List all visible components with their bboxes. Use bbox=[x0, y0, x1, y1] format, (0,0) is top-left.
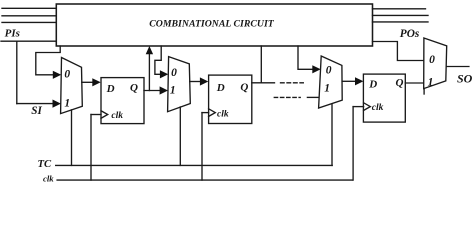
wire SI horizontal into mux M1 input 1 bbox=[17, 103, 55, 105]
svg-text:1: 1 bbox=[64, 98, 70, 110]
svg-text:clk: clk bbox=[111, 111, 123, 121]
mux M2 bbox=[168, 57, 191, 112]
svg-text:COMBINATIONAL CIRCUIT: COMBINATIONAL CIRCUIT bbox=[149, 19, 275, 30]
svg-text:1: 1 bbox=[428, 76, 434, 88]
svg-text:0: 0 bbox=[64, 68, 70, 80]
TC rail wire bbox=[56, 164, 333, 166]
dashed wire lower scan path continuation bbox=[274, 96, 300, 98]
arrowhead into mux M1 input 1 bbox=[53, 100, 61, 108]
mux M4 select stub wire bbox=[423, 89, 425, 95]
arrowhead into FF1 D bbox=[92, 78, 100, 86]
arrowhead into FF2 D bbox=[200, 77, 208, 85]
arrowhead into mux M2 input 0 bbox=[160, 70, 168, 78]
mux M1 bbox=[61, 58, 83, 114]
PO bus wire 1 bbox=[373, 8, 426, 10]
wire comb-out to mux M1 input 0 (zigzag) bbox=[36, 46, 60, 75]
mux M2 select wire to TC bbox=[179, 107, 181, 165]
svg-text:D: D bbox=[106, 83, 115, 95]
PI bus wire 2 bbox=[2, 15, 56, 17]
arrowhead up into comb circuit bbox=[146, 46, 153, 54]
svg-text:PIs: PIs bbox=[5, 28, 20, 40]
mux M3 output wire bbox=[342, 80, 356, 82]
svg-text:D: D bbox=[368, 79, 377, 91]
FF2 clock wedge bbox=[209, 109, 216, 117]
wire comb PO to mux M4 input 0 (POs line) bbox=[373, 42, 424, 61]
PI bus wire 3 bbox=[2, 21, 56, 23]
svg-text:clk: clk bbox=[372, 103, 384, 113]
PO bus wire 2 bbox=[373, 14, 429, 16]
FF3 clock wedge bbox=[364, 103, 371, 111]
wire comb-out to mux M3 input 0 bbox=[298, 46, 314, 69]
svg-text:POs: POs bbox=[400, 28, 420, 40]
FF1 clock wedge bbox=[101, 111, 108, 119]
svg-text:D: D bbox=[216, 82, 225, 94]
svg-text:SI: SI bbox=[31, 105, 42, 117]
wire Q1 feedback vertical to comb circuit bbox=[148, 53, 150, 91]
wire SI vertical drop from PIs line bbox=[16, 41, 18, 103]
mux M1 select wire to TC bbox=[71, 110, 73, 165]
arrowhead into mux M3 input 0 bbox=[312, 65, 320, 73]
svg-text:clk: clk bbox=[43, 174, 54, 184]
wire comb-out to mux M2 input 0 (zigzag) bbox=[155, 46, 161, 74]
mux M4 bbox=[424, 38, 447, 89]
wire Q1 to mux M2 input 1 bbox=[144, 90, 160, 92]
wire Q2 out bbox=[252, 82, 275, 84]
mux M2 output wire bbox=[190, 81, 201, 83]
flip-flop FF1 bbox=[101, 78, 144, 124]
FF2 clk stub wire bbox=[202, 112, 209, 114]
PO bus wire 3 bbox=[373, 21, 429, 23]
wire SO output bbox=[447, 66, 469, 68]
FF1 clk stub wire bbox=[91, 114, 101, 116]
combinational circuit box bbox=[56, 4, 372, 46]
flip-flop FF3 bbox=[363, 74, 405, 122]
mux M3 select wire to TC rail bbox=[331, 104, 333, 165]
svg-text:Q: Q bbox=[396, 77, 404, 89]
FF2 clk drop wire to clk rail bbox=[201, 113, 203, 181]
PI wire 4 (PIs labelled line) bbox=[1, 40, 56, 42]
svg-text:0: 0 bbox=[171, 67, 177, 79]
svg-text:SO: SO bbox=[457, 71, 473, 85]
svg-text:0: 0 bbox=[326, 65, 332, 77]
dashed wire upper scan path continuation bbox=[281, 82, 304, 84]
svg-text:TC: TC bbox=[38, 158, 53, 170]
arrowhead into mux M2 input 1 bbox=[160, 86, 168, 94]
PI bus wire 1 bbox=[2, 7, 56, 9]
FF3 clk stub wire bbox=[353, 106, 364, 108]
FF3 clk drop wire to clk rail bbox=[352, 107, 354, 181]
arrowhead into FF3 D bbox=[355, 77, 363, 85]
wire into mux M3 input 1 bbox=[307, 96, 321, 98]
svg-text:0: 0 bbox=[429, 54, 435, 66]
svg-text:Q: Q bbox=[130, 82, 138, 94]
wire Q2 feedback vertical to comb circuit bbox=[260, 46, 262, 83]
mux M1 output wire bbox=[82, 81, 93, 83]
wire Q3 to mux M4 input 1 bbox=[405, 82, 424, 84]
svg-text:1: 1 bbox=[170, 85, 176, 97]
svg-text:Q: Q bbox=[240, 81, 248, 93]
svg-text:1: 1 bbox=[324, 83, 330, 95]
FF1 clk drop wire to clk rail bbox=[90, 115, 92, 181]
mux M3 bbox=[319, 56, 343, 108]
arrowhead into mux M1 input 0 bbox=[53, 71, 61, 79]
svg-text:clk: clk bbox=[217, 109, 229, 119]
flip-flop FF2 bbox=[209, 75, 252, 123]
clk rail wire bbox=[57, 179, 352, 181]
